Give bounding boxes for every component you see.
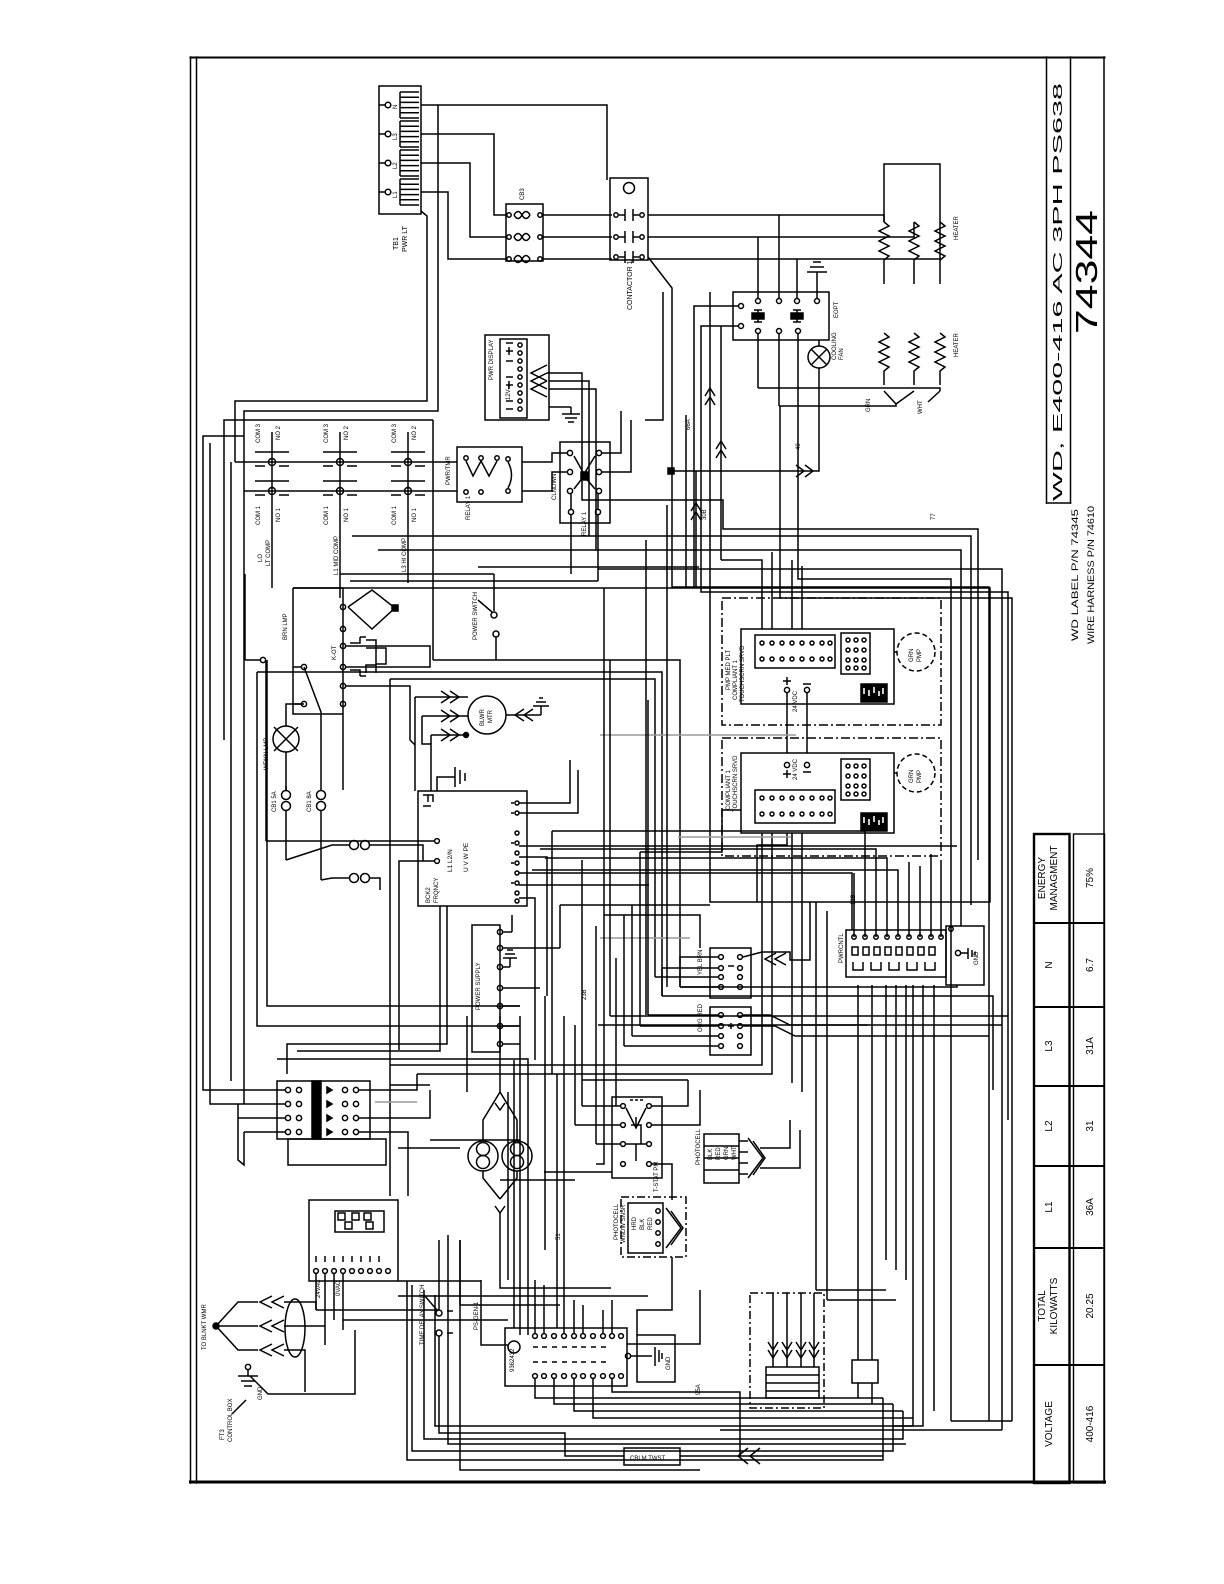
svg-text:L1: L1	[393, 191, 399, 198]
CB3 pole 2	[507, 234, 542, 241]
wire pwrdist drop 2	[871, 985, 873, 1330]
wire tstat left 2	[575, 1124, 620, 1126]
wire enclosure exit 2	[552, 911, 772, 1074]
vertical trunk x508	[507, 1092, 509, 1280]
wire relay2 right 1	[602, 411, 621, 453]
wire connector plus out 2	[743, 1026, 989, 1036]
wire psu L run	[511, 915, 513, 932]
svg-text:12V---: 12V---	[506, 384, 512, 400]
wire EOPT bottom1 down	[757, 340, 759, 388]
board1 24VDC pins	[783, 677, 811, 693]
wire terminal feed 3	[238, 1117, 285, 1119]
wire enclosure exit 4	[801, 928, 803, 1092]
wire board1 top pins up 2	[771, 552, 773, 629]
wire tstat drop link	[637, 1257, 672, 1335]
spec table label column box	[1034, 834, 1070, 1483]
svg-text:HEATER: HEATER	[954, 215, 960, 240]
svg-text:TIME DELAY SWITCH: TIME DELAY SWITCH	[420, 1285, 426, 1345]
wire EOPT bottom3 down	[797, 340, 799, 388]
svg-text:GND: GND	[258, 1386, 264, 1400]
svg-text:COM 3: COM 3	[392, 423, 398, 443]
svg-text:9362432: 9362432	[510, 1348, 516, 1372]
wire connector minus out	[743, 902, 810, 960]
control PCB pins	[314, 1269, 391, 1274]
CB3 pole 1	[507, 212, 542, 219]
wire heater return upper	[758, 388, 940, 391]
wire blower U	[415, 696, 468, 698]
wire x688 drop	[582, 1079, 688, 1081]
wire psu minus feed	[257, 672, 520, 1026]
wire display feed 1	[547, 373, 978, 860]
horizontal link y1296	[398, 1295, 648, 1297]
control PCB box	[309, 1200, 398, 1281]
svg-text:KILOWATTS: KILOWATTS	[1049, 1277, 1060, 1334]
vertical trunk x582	[581, 860, 583, 1106]
TB1 pin L3	[379, 121, 419, 147]
harness wire 3	[796, 1293, 806, 1367]
wire blower V feed	[422, 716, 431, 791]
EOPT fuse element 1	[752, 310, 764, 322]
wire selects out	[760, 1120, 790, 1148]
wire connector top riser 6	[602, 1310, 604, 1333]
SECTION-C	[532, 471, 1008, 1430]
wire midbus y1180	[500, 1179, 575, 1181]
horizontal bus y660	[433, 660, 680, 987]
wire connector minus in 2	[662, 968, 718, 996]
wire board2 bottom down 3	[791, 833, 793, 920]
left bus vertical x210	[210, 443, 238, 1104]
svg-text:RED: RED	[648, 1217, 654, 1230]
wire connector top riser 1	[534, 1280, 536, 1333]
wire FT3 diagonal	[232, 1400, 246, 1414]
KLYWST box	[852, 1360, 878, 1383]
photocell window sensor dashdot	[621, 1197, 686, 1257]
wire relay2 right 2	[602, 420, 631, 472]
wire TB1 L3 to breaker	[421, 134, 506, 215]
power supply pin V3	[497, 1023, 520, 1028]
wire connector bottom 5	[612, 1379, 740, 1456]
svg-text:WIRE HARNESS P/N 74610: WIRE HARNESS P/N 74610	[1086, 506, 1096, 644]
wire right trunk x989	[672, 471, 989, 1421]
EOPT bottom pin 1	[756, 329, 761, 341]
horizontal link y1074	[417, 1073, 552, 1075]
blower motor BLWR MTR	[468, 696, 506, 734]
horizontal bus y915	[604, 915, 700, 948]
svg-text:FRQNCY: FRQNCY	[434, 878, 440, 903]
wire contact bus lower	[244, 490, 457, 492]
power supply pin V4	[497, 1041, 520, 1046]
svg-text:NO 1: NO 1	[276, 507, 282, 522]
wire TB1 L1 to breaker	[421, 192, 506, 259]
relay PWRTMR RELAY 1 box	[457, 447, 522, 502]
contactor 1 box	[610, 178, 648, 260]
horizontal bus y574	[340, 573, 494, 575]
svg-text:CB3: CB3	[520, 188, 526, 200]
svg-text:COM 1: COM 1	[256, 505, 262, 525]
vertical x467 run	[466, 1016, 468, 1092]
svg-text:ENERGY: ENERGY	[1037, 857, 1048, 900]
wire EOPT pin3 up	[796, 259, 798, 292]
fuse CB1 5A	[282, 786, 291, 860]
circuit breaker CB3	[506, 204, 543, 261]
wire display feed 2	[549, 381, 971, 905]
lamp diamond top	[483, 1092, 500, 1141]
bottom connector bottom pins	[533, 1374, 624, 1379]
horizontal bus y581	[350, 580, 598, 582]
svg-text:LO: LO	[258, 554, 264, 562]
svg-text:ORG RED: ORG RED	[698, 1003, 704, 1032]
EOPT top pin 1	[756, 292, 761, 304]
wire thermostat down	[342, 712, 344, 790]
chevron fan wire	[796, 465, 813, 477]
svg-text:66A: 66A	[686, 419, 692, 430]
wire contactor T3 to heater col3	[648, 222, 940, 259]
heater top bus	[884, 164, 940, 222]
pump motor 2	[894, 754, 935, 792]
wire board1 top pins up 4	[801, 566, 803, 629]
vertical trunk x624	[623, 915, 625, 1046]
wire 24vdc down 1	[786, 693, 788, 753]
wire top bundle a	[645, 292, 663, 420]
wire timer down	[439, 1336, 565, 1452]
wire terminal feed 4	[244, 1131, 285, 1133]
wire klywst up 2	[871, 1330, 873, 1360]
EOPT left pin a	[733, 304, 744, 309]
nested loop bottom 3	[424, 1290, 903, 1439]
wire blower W	[431, 734, 469, 736]
wire 24v link down	[757, 833, 787, 902]
wire TB1 drop bus a	[235, 211, 427, 462]
harness wire 2	[782, 1293, 792, 1367]
vertical trunk x648	[647, 700, 649, 1015]
svg-text:NO 2: NO 2	[412, 425, 418, 440]
svg-text:12B: 12B	[851, 894, 857, 905]
svg-text:NO 1: NO 1	[344, 507, 350, 522]
wire psu N riser	[559, 905, 561, 948]
nested loop bottom 2	[412, 1285, 893, 1451]
harness wire 1	[768, 1293, 778, 1367]
svg-text:L1 MID COMP: L1 MID COMP	[334, 536, 340, 575]
board1 barcode block	[861, 684, 887, 702]
control PCB pin ticks	[316, 1256, 379, 1262]
svg-text:WD, E400-416 AC 3PH PS638: WD, E400-416 AC 3PH PS638	[1051, 83, 1065, 501]
wire 24vdc down 2	[806, 693, 808, 753]
svg-text:L3 HI COMP: L3 HI COMP	[402, 538, 408, 572]
horizontal bus y679	[390, 679, 655, 977]
spec table value column box	[1074, 834, 1105, 1483]
svg-text:GND: GND	[974, 951, 980, 965]
svg-text:PWRCNTL: PWRCNTL	[839, 933, 845, 963]
svg-text:EOPT: EOPT	[834, 301, 840, 318]
controller board 2	[741, 753, 894, 833]
svg-text:CBLM TWST: CBLM TWST	[630, 1456, 666, 1462]
thermostat body K-OT	[350, 637, 386, 676]
wire connector right 1	[627, 1290, 700, 1344]
wire board2 bottom down 2	[771, 833, 773, 911]
title block column left line	[1046, 57, 1048, 503]
svg-text:PWR DISPLAY: PWR DISPLAY	[489, 339, 495, 380]
board2 24VDC pins	[783, 762, 811, 778]
wire left bus to lamp	[230, 462, 232, 1081]
spec table row line 4	[1034, 1165, 1105, 1167]
svg-text:GRN: GRN	[909, 770, 915, 783]
svg-text:PHOTOCELL: PHOTOCELL	[614, 1203, 620, 1240]
svg-text:POWER SUPPLY: POWER SUPPLY	[476, 962, 482, 1010]
resistor heater R3	[935, 222, 945, 284]
vertical trunk x886	[885, 985, 887, 1260]
wire bus y1051	[297, 906, 440, 1051]
wire contact bus upper	[235, 461, 457, 463]
wire CB3 to contactor pole1	[543, 214, 612, 216]
contactor 1 contact L3-T3	[614, 251, 644, 263]
horizontal bus y905	[560, 904, 710, 906]
svg-text:24 VDC: 24 VDC	[793, 758, 799, 780]
photocell selects pins	[739, 1141, 748, 1174]
inverter input pin L1	[435, 839, 440, 844]
wire lamp top	[286, 704, 304, 726]
wire pwrdist pin riser 8	[930, 854, 932, 937]
wire terminal out 3	[359, 1132, 408, 1196]
wire connector plus out 1	[743, 1015, 1002, 1025]
svg-text:CB1 5A: CB1 5A	[272, 791, 278, 812]
SECTION-D	[213, 831, 1012, 1470]
wire klywst down 1	[857, 1383, 859, 1398]
vertical trunk x390	[389, 679, 391, 1196]
svg-text:30B: 30B	[702, 509, 708, 520]
svg-text:NO 2: NO 2	[276, 425, 282, 440]
svg-text:NO 1: NO 1	[412, 507, 418, 522]
vertical trunk x686	[685, 415, 687, 588]
svg-text:40: 40	[796, 443, 802, 450]
wire EOPT left a	[694, 306, 733, 588]
wire timer up	[438, 1240, 440, 1310]
wire contactor T2 to heater col2	[648, 222, 914, 237]
selector diamond F1	[348, 590, 398, 629]
svg-text:COOLING: COOLING	[832, 332, 838, 360]
dispenser outer enclosure box	[710, 588, 990, 902]
chevron blanket 3	[260, 1344, 284, 1356]
svg-text:RELAY 1: RELAY 1	[582, 511, 588, 536]
title block bottom close	[1047, 502, 1071, 504]
inverter pin column	[511, 801, 519, 903]
inverter PE mark	[423, 795, 433, 806]
svg-text:NO 2: NO 2	[344, 425, 350, 440]
lamp diamond bottom right	[500, 1171, 517, 1199]
border frame inner left	[196, 57, 198, 1483]
wire loop left vertical a	[448, 1235, 906, 1444]
lamp indicator 2	[502, 1141, 532, 1171]
wire EOPT bottom2 down	[778, 340, 780, 406]
fuse CB1 8A	[317, 756, 326, 880]
bottom connector index circle	[508, 1341, 520, 1353]
contactor 1 contact L1-T1	[614, 209, 644, 221]
wire CB3 to contactor pole2	[543, 236, 612, 238]
pwr dist gnd box	[946, 926, 984, 985]
EOPT top pin 4	[815, 292, 820, 304]
lamp indicator 1	[468, 1141, 498, 1171]
contactor 1 coil	[624, 183, 635, 194]
vertical trunk x610	[609, 660, 611, 1016]
wire contactor bottom diagonal	[648, 257, 672, 469]
wire enclosure exit 1	[545, 902, 762, 1065]
TB1 pin L1	[379, 179, 419, 205]
wire connector plus in 4	[624, 1045, 718, 1047]
wire midbus y1148	[398, 1147, 460, 1149]
ground EOPT	[807, 262, 827, 292]
harness wire 4	[809, 1293, 819, 1367]
svg-text:GRN: GRN	[909, 649, 915, 662]
power switch	[478, 574, 499, 660]
wire TB1 L2 to breaker	[421, 163, 506, 237]
horizontal link y1320	[343, 1319, 508, 1321]
wire connector bottom 3	[574, 1379, 903, 1411]
svg-text:N: N	[393, 105, 399, 109]
wire contactor T1 to heater col1	[648, 215, 884, 222]
spec table row line 1	[1034, 922, 1105, 924]
wire coil group1 drop	[271, 530, 273, 588]
svg-text:K-OT: K-OT	[332, 645, 338, 660]
svg-text:24VAC: 24VAC	[316, 1279, 322, 1298]
resistor heater R5	[909, 333, 919, 385]
board1 connector block	[755, 635, 835, 668]
wire board2 bottom down 1	[761, 833, 763, 902]
svg-text:77: 77	[931, 513, 937, 520]
svg-text:COM 1: COM 1	[324, 505, 330, 525]
grey wire controller	[600, 734, 796, 736]
wire pwrdist pin riser 1	[853, 873, 855, 937]
vertical trunk x906	[905, 985, 907, 1280]
vertical trunk x616	[615, 958, 617, 1106]
inverter input pin L2	[435, 859, 440, 864]
wire relay2 bottom 2	[597, 515, 599, 581]
terminal strip lower box	[288, 1139, 386, 1165]
power supply pin L	[497, 929, 512, 934]
wire psu plus feed	[267, 660, 520, 1006]
SECTION-B	[231, 411, 957, 1335]
vertical trunk x896	[895, 985, 897, 1270]
wire lamp bottom	[285, 752, 287, 790]
svg-text:PWR LT: PWR LT	[402, 225, 409, 252]
horizontal link y1281	[398, 1280, 481, 1282]
terminal block TB1	[379, 86, 421, 214]
nested loop right 1	[951, 1420, 1012, 1422]
junction blower W	[464, 733, 469, 738]
svg-text:PMP MED PLT: PMP MED PLT	[726, 650, 732, 690]
vertical trunk x557	[556, 1074, 558, 1328]
vertical x460 run	[459, 1240, 461, 1305]
svg-text:VOLTAGE: VOLTAGE	[1044, 1401, 1055, 1447]
svg-text:95A: 95A	[696, 1384, 702, 1395]
svg-text:GND: GND	[666, 1356, 672, 1370]
wire bundle arrow vertical 2	[716, 326, 726, 560]
cable loop ellipse	[285, 1299, 305, 1357]
wire pcb drop 2	[324, 1274, 326, 1345]
photocell selects chevron	[748, 1138, 765, 1178]
wire bottom mid 1	[816, 1289, 886, 1291]
horizontal link y1310	[316, 1309, 439, 1311]
pump motor 1	[894, 633, 935, 671]
EOPT fuse element 2	[791, 310, 803, 322]
vertical trunk x244	[243, 491, 245, 1104]
wire connector bottom 2	[554, 1379, 893, 1404]
vertical trunk x923	[893, 985, 923, 1426]
TB1 pin L2	[379, 150, 419, 176]
svg-text:23B: 23B	[582, 989, 588, 1000]
svg-text:BLK: BLK	[708, 1149, 714, 1160]
connector minus chevrons	[765, 953, 786, 965]
secondary harness dashdot	[750, 1293, 824, 1408]
wire terminal left drop	[238, 1104, 244, 1165]
control PCB sub board	[335, 1211, 384, 1232]
wire lamp drop	[500, 1213, 611, 1288]
relay AUX RELAY 1 box	[560, 442, 610, 523]
wire terminal out 1	[359, 1074, 417, 1090]
svg-text:PMP: PMP	[917, 770, 923, 783]
board2 DIP block	[841, 759, 870, 800]
vertical trunk x816	[815, 902, 817, 1290]
nested loop right 2	[720, 1429, 1002, 1431]
wire right trunk x1008	[701, 471, 1008, 1016]
wire bottom connector feed	[481, 1280, 508, 1345]
svg-text:RED: RED	[716, 1147, 722, 1160]
wire coil group3 drop	[407, 530, 409, 583]
title block column middle line	[1070, 57, 1072, 503]
wire pwrdist pin riser 3	[540, 849, 876, 937]
ground blower	[506, 698, 549, 715]
terminal strip black bar	[312, 1081, 321, 1139]
vertical trunk x596	[595, 926, 597, 1144]
vertical trunk x646	[645, 540, 647, 1015]
vertical trunk x514	[513, 1060, 515, 1328]
svg-text:LT COMP: LT COMP	[266, 540, 272, 566]
wire klywst down 2	[871, 1383, 873, 1404]
svg-text:HEATER: HEATER	[954, 332, 960, 357]
wire enclosure exit 3	[791, 920, 793, 1083]
vertical trunk x640	[639, 852, 641, 1026]
EOPT top pin 3	[795, 292, 800, 304]
svg-text:20.25: 20.25	[1085, 1293, 1096, 1318]
pwr dist top pins	[852, 935, 943, 939]
wire connector plus in 1	[648, 1014, 718, 1016]
wire pwrdist drop 1	[857, 985, 859, 1340]
wire bottom mid 2	[827, 1299, 896, 1301]
border frame right	[1103, 57, 1105, 1483]
grey wire terminal	[375, 1101, 417, 1103]
wire blower U feed	[414, 697, 416, 791]
wire loop left vertical b	[460, 1240, 700, 1470]
power display outer box	[485, 335, 549, 420]
svg-text:74344: 74344	[1069, 210, 1104, 334]
wire blanket out 2	[284, 1325, 325, 1327]
wire blanket out 1	[284, 1302, 316, 1310]
contactor 1 contact L2-T2	[614, 231, 644, 243]
left bus vertical x203	[203, 436, 244, 1090]
inverter ground	[437, 767, 465, 791]
horizontal bus y672	[257, 672, 662, 996]
svg-text:GRN: GRN	[866, 399, 872, 412]
vertical trunk x913b	[912, 985, 914, 1418]
svg-text:WHT: WHT	[918, 400, 924, 414]
wire coil group2 drop	[339, 530, 341, 598]
svg-text:TOUCHSCRN SRVD: TOUCHSCRN SRVD	[733, 755, 739, 812]
wire ground diagonal	[250, 1330, 355, 1394]
svg-text:PWR/TMR: PWR/TMR	[446, 456, 452, 485]
inverter box	[418, 791, 527, 906]
svg-text:CB1 8A: CB1 8A	[307, 791, 313, 812]
wire EOPT pin1 up	[757, 237, 759, 292]
thermostat left wire	[293, 588, 343, 714]
wire midbus y1140	[430, 1139, 520, 1141]
